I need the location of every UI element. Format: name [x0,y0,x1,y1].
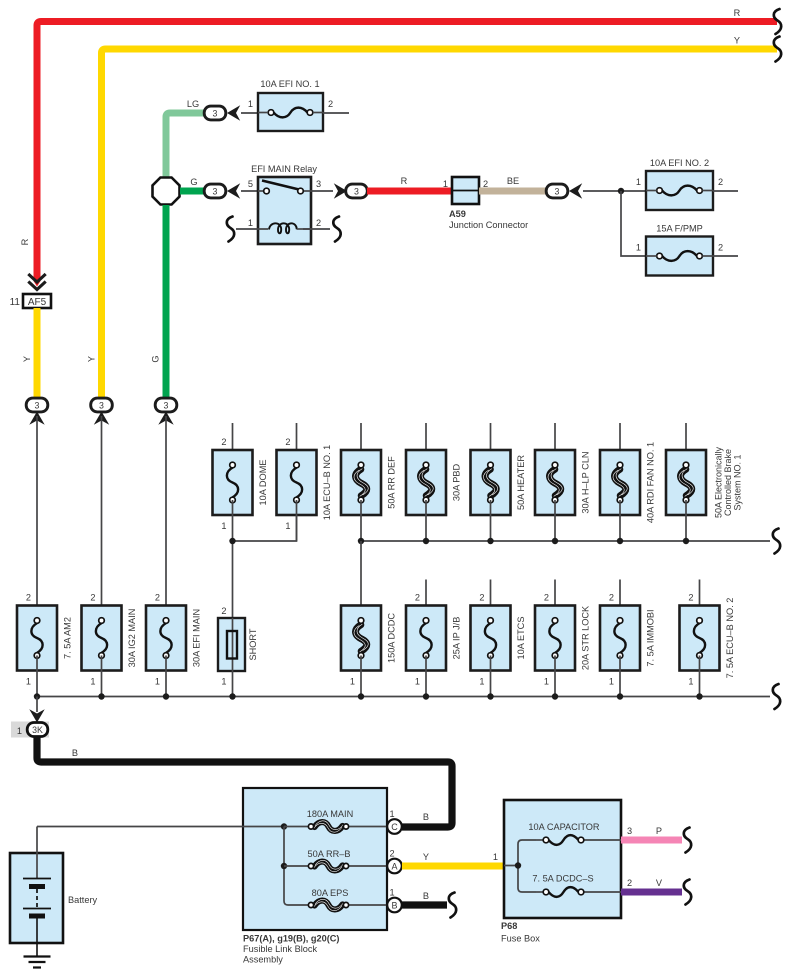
connector oval 3 (IG2 feed) [91,398,113,412]
fusible link 180A MAIN [284,809,387,832]
arrow shielded end of red wire at AF5 [34,277,41,287]
svg-text:1: 1 [155,677,160,687]
wire internal branch down [284,827,309,906]
fuse 30A EFI MAIN [146,593,202,687]
svg-text:1: 1 [443,179,448,189]
svg-text:11: 11 [10,297,21,308]
svg-text:1: 1 [479,677,484,687]
junction node P68 input [515,862,521,868]
svg-text:1: 1 [636,177,641,187]
svg-text:10A DOME: 10A DOME [258,460,268,506]
wire BE A59 to connector [479,188,547,195]
connector C pin 1 [387,809,402,834]
fusible link 80A EPS [308,888,387,911]
wire stub right of fuse EFI NO.1 [323,112,349,114]
svg-text:2: 2 [155,593,160,603]
svg-text:AF5: AF5 [28,297,47,308]
svg-text:10A EFI NO. 2: 10A EFI NO. 2 [650,158,709,168]
junction connector A59 [443,177,528,230]
fuse 50A HEATER [471,423,527,541]
break symbol top bus right end [773,529,780,554]
battery [10,827,63,957]
svg-text:B: B [391,901,397,911]
svg-text:SHORT: SHORT [248,628,258,660]
svg-text:2: 2 [26,593,31,603]
svg-text:2: 2 [285,437,290,447]
junction node top bus x=620 [617,538,623,544]
wire G junction down to EFI MAIN fuse connector [163,205,170,399]
connector oval 3 (AM2 feed) [26,398,48,412]
junction node bottom bus x=101.5 [98,693,104,699]
fuse 40A RDI FAN NO. 1 [600,423,656,541]
svg-text:2: 2 [627,878,632,888]
fuse 7.5A AM2 [17,593,73,687]
junction node 180A MAIN branch [281,823,287,829]
fuse 30A IG2 MAIN [82,593,138,687]
fuse 10A EFI NO. 1 [248,79,333,131]
svg-text:2: 2 [479,593,484,603]
svg-text:1: 1 [221,521,226,531]
svg-text:1: 1 [688,677,693,687]
fuse 150A DCDC [341,606,397,687]
connector oval 3 (EFI NO.2 feed) [546,184,568,198]
svg-text:2: 2 [688,593,693,603]
svg-text:1: 1 [248,218,253,228]
svg-text:15A F/PMP: 15A F/PMP [656,224,702,234]
break symbol purple wire [684,880,691,905]
fuse 30A H-LP CLN [535,423,591,541]
svg-text:2: 2 [316,218,321,228]
wire B thick from pin B [402,901,447,908]
svg-text:1: 1 [493,852,498,862]
svg-text:10A CAPACITOR: 10A CAPACITOR [528,822,600,832]
svg-text:B: B [72,748,78,758]
connector oval 3 (relay pin 5) [204,184,226,198]
svg-text:Assembly: Assembly [243,955,283,965]
wire fuse to bottom bus x=426 [425,656,427,697]
svg-text:1: 1 [415,677,420,687]
svg-text:7. 5A DCDC–S: 7. 5A DCDC–S [532,874,593,884]
wire fuse to bottom bus x=699.5 [699,656,701,697]
connector oval 3 (EFI NO.1) [204,106,226,120]
svg-text:10A EFI NO. 1: 10A EFI NO. 1 [260,79,319,89]
svg-text:BE: BE [507,176,519,186]
svg-text:2: 2 [415,593,420,603]
svg-text:Y: Y [22,356,32,362]
fuse 10A ECU-B NO. 1 [277,423,333,541]
svg-text:P68: P68 [501,921,517,931]
junction node bottom bus x=620 [617,693,623,699]
fuse 50A ECB NO. 1 [666,423,743,541]
svg-text:20A STR LOCK: 20A STR LOCK [581,605,591,670]
svg-text:LG: LG [187,99,199,109]
wire relay pin 3 to connector [311,190,333,192]
svg-text:B: B [423,891,429,901]
wire internal P68 branch [504,840,536,892]
svg-text:Junction Connector: Junction Connector [449,220,528,230]
svg-text:10A ETCS: 10A ETCS [516,617,526,660]
break symbol relay pin 1 [227,217,234,242]
svg-text:1: 1 [221,677,226,687]
wire battery to fusible link block [37,826,284,828]
svg-text:R: R [20,238,30,245]
wire fuse to bottom bus x=232.5 [232,671,234,697]
wire top bus [361,540,770,542]
ground symbol [24,957,51,968]
svg-text:1: 1 [350,677,355,687]
wire down to 7.5A AM2 fuse [36,416,38,621]
arrow right out of relay [334,183,347,198]
svg-text:1: 1 [17,726,22,736]
junction node bottom bus x=166 [163,693,169,699]
break symbol bottom bus right end [773,684,780,709]
svg-text:50A RR–B: 50A RR–B [308,849,351,859]
wire Y from pin A to P68 [402,863,504,870]
svg-text:30A EFI MAIN: 30A EFI MAIN [192,609,202,667]
wire RR-B branch [284,865,309,867]
junction node top bus x=555 [552,538,558,544]
junction node top bus x=361 [358,538,364,544]
fuse 50A RR DEF [341,423,397,541]
junction node top bus x=426 [423,538,429,544]
fuse 25A IP J/B [406,580,462,687]
wire fuse to bottom bus x=361 [360,656,362,697]
junction node bottom bus x=490.5 [487,693,493,699]
fuse 7.5A ECU-B NO. 2 [680,580,736,687]
svg-text:A: A [391,862,397,872]
wire down to 30A IG2 MAIN fuse [101,416,103,621]
svg-text:3: 3 [164,400,169,410]
svg-text:3: 3 [35,400,40,410]
break symbol pink wire [684,828,691,853]
svg-text:50A RR DEF: 50A RR DEF [387,456,397,509]
svg-text:A59: A59 [449,209,466,219]
fusible link block P67 box [243,788,387,930]
junction node 50A RR-B branch [281,863,287,869]
wire bus down to 3K connector [36,697,38,713]
wire mini bus DOME/ECU-B to SHORT [233,515,297,618]
wire fuse to bottom bus x=490.5 [490,656,492,697]
svg-text:3: 3 [99,400,104,410]
wire to EFI NO.2 fuses [583,190,646,192]
break symbol red wire right end [774,9,781,34]
arrow up into connector 3 AM2 [29,412,44,425]
svg-text:Y: Y [423,852,429,862]
wire R main feed (red) [37,22,777,282]
connector B pin 1 [387,888,402,913]
svg-text:30A H–LP CLN: 30A H–LP CLN [581,451,591,513]
connector oval 3 (EFI MAIN feed) [155,398,177,412]
junction node bottom bus x=37 [34,693,40,699]
svg-text:3: 3 [213,186,218,196]
svg-text:5: 5 [248,179,253,189]
svg-text:40A RDI FAN NO. 1: 40A RDI FAN NO. 1 [646,442,656,523]
fuse box P68 box [504,800,621,918]
svg-text:1: 1 [248,99,253,109]
junction node DOME on mini bus [229,538,235,544]
svg-text:1: 1 [544,677,549,687]
wire Y main (yellow) [102,49,778,399]
wire fuse to bottom bus x=166 [165,656,167,697]
svg-text:3: 3 [627,826,632,836]
relay coil [269,223,297,233]
arrow left into BE connector [569,183,582,198]
svg-text:2: 2 [609,593,614,603]
svg-text:V: V [656,878,663,888]
connector 3K pin 1 [11,722,49,738]
svg-text:2: 2 [718,177,723,187]
wire down to 30A EFI MAIN fuse [165,416,167,621]
wire fuse to bottom bus x=555 [554,656,556,697]
svg-text:80A EPS: 80A EPS [312,888,349,898]
junction node bottom bus x=232.5 [229,693,235,699]
connector AF5 pin 11 [10,294,51,308]
svg-text:30A IG2 MAIN: 30A IG2 MAIN [127,609,137,668]
arrow down into 3K connector [29,709,44,722]
connector A pin 2 [387,849,402,874]
arrow up into connector 3 IG2 [94,412,109,425]
connector oval 3 (relay pin 3) [346,184,368,198]
break symbol yellow wire right end [774,37,781,62]
svg-text:Y: Y [87,356,97,362]
fuse 10A EFI NO. 2 [636,158,723,210]
svg-text:2: 2 [389,849,394,859]
fuse 15A F/PMP [636,224,723,276]
junction node bottom bus x=426 [423,693,429,699]
svg-text:1: 1 [636,243,641,253]
svg-text:2: 2 [221,437,226,447]
svg-text:150A DCDC: 150A DCDC [387,613,397,663]
fuse 10A ETCS [471,580,527,687]
svg-text:R: R [734,8,741,18]
svg-text:1: 1 [285,521,290,531]
svg-text:B: B [423,812,429,822]
wire relay pin 1 [236,228,268,230]
svg-text:3: 3 [213,108,218,118]
svg-text:7. 5A ECU–B NO. 2: 7. 5A ECU–B NO. 2 [725,598,735,679]
wire bottom bus [37,696,770,698]
svg-text:1: 1 [26,677,31,687]
svg-text:2: 2 [718,243,723,253]
svg-text:3: 3 [555,186,560,196]
svg-text:G: G [190,177,197,187]
wire fuse to bottom bus x=37 [36,656,38,697]
junction octagon [153,178,180,205]
wire G junction to relay connector [180,188,205,195]
wire fuse to bottom bus x=620 [619,656,621,697]
arrow left into relay connector [227,183,240,198]
arrow left into connector EFI NO.1 [227,105,240,120]
wire branch down to 15A F/PMP [621,191,646,256]
svg-text:G: G [151,355,161,362]
svg-text:3: 3 [354,186,359,196]
svg-text:50A HEATER: 50A HEATER [516,455,526,510]
svg-text:2: 2 [90,593,95,603]
junction node to F/PMP branch [618,188,624,194]
svg-text:System NO. 1: System NO. 1 [733,454,743,510]
svg-text:25A IP J/B: 25A IP J/B [452,617,462,660]
break symbol relay pin 2 [333,217,340,242]
wire Y from AF5 to connector [34,308,41,399]
wire LG from junction to EFI NO.1 connector [166,113,205,177]
wire stub right of EFI NO.2 [713,190,738,192]
svg-text:2: 2 [544,593,549,603]
wire B thick from 3K to fusible link block pin C [37,736,452,827]
svg-text:3: 3 [316,179,321,189]
fusible link 50A RR-B [308,849,387,872]
fuse 10A CAPACITOR [528,822,621,845]
svg-text:C: C [391,822,398,832]
relay EFI MAIN Relay [248,164,321,244]
wire top bus down to 150A DCDC [360,541,362,621]
svg-text:180A MAIN: 180A MAIN [307,809,353,819]
fuse 7.5A DCDC-S [532,874,621,897]
svg-text:P: P [656,826,662,836]
wire relay pin 2 [303,228,330,230]
svg-text:7. 5A AM2: 7. 5A AM2 [63,617,73,659]
svg-text:EFI MAIN Relay: EFI MAIN Relay [251,164,317,174]
wire arrow to fuse EFI NO.1 [241,112,258,114]
junction node bottom bus x=361 [358,693,364,699]
svg-text:1: 1 [389,888,394,898]
junction node bottom bus x=555 [552,693,558,699]
fuse SHORT (short pin) [218,606,258,687]
svg-text:Controlled Brake: Controlled Brake [723,449,733,516]
wire P pink from capacitor [621,837,682,844]
break symbol B wire end [449,893,456,918]
svg-text:3K: 3K [32,725,43,735]
svg-text:P67(A), g19(B), g20(C): P67(A), g19(B), g20(C) [243,934,339,944]
wire fuse to bottom bus x=101.5 [101,656,103,697]
junction node top bus x=490.5 [487,538,493,544]
junction node top bus x=686 [683,538,689,544]
svg-text:30A PBD: 30A PBD [452,464,462,502]
fuse 7.5A IMMOBI [600,580,656,687]
svg-text:1: 1 [90,677,95,687]
svg-text:Fusible Link Block: Fusible Link Block [243,944,317,954]
svg-text:7. 5A IMMOBI: 7. 5A IMMOBI [646,609,656,666]
fuse 20A STR LOCK [535,580,591,687]
svg-text:1: 1 [389,809,394,819]
wire V purple from DCDC-S [621,889,682,896]
svg-text:1: 1 [609,677,614,687]
svg-text:2: 2 [328,99,333,109]
fuse 10A DOME [213,423,269,541]
fuse 30A PBD [406,423,462,541]
svg-text:Battery: Battery [68,895,98,905]
junction node bottom bus x=699.5 [696,693,702,699]
wire R relay to A59 [367,188,452,195]
wire stub right of F/PMP [713,255,738,257]
svg-text:Y: Y [734,36,740,46]
svg-text:10A ECU–B NO. 1: 10A ECU–B NO. 1 [322,445,332,521]
wire arrow to relay pin 5 [241,190,258,192]
arrow up into connector EFI MAIN [158,412,173,425]
svg-text:50A Electronically: 50A Electronically [714,446,724,518]
svg-text:R: R [401,176,408,186]
svg-text:2: 2 [221,606,226,616]
svg-text:Fuse Box: Fuse Box [501,934,540,944]
